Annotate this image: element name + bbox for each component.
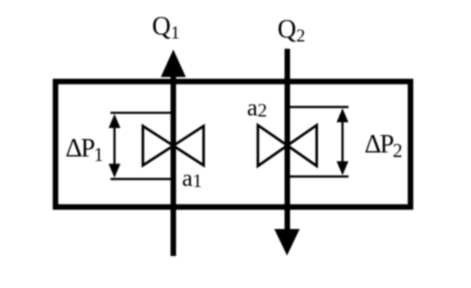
svg-text:ΔP2: ΔP2 (365, 130, 403, 162)
svg-text:ΔP1: ΔP1 (66, 134, 104, 166)
dim arrow DP1 down (109, 164, 121, 178)
arrowhead Q1 (up) (161, 50, 186, 78)
valve V2 (bowtie) (258, 125, 317, 166)
wire: right flow line Q2 (285, 49, 291, 236)
svg-text:Q1: Q1 (152, 11, 180, 42)
svg-text:a2: a2 (247, 96, 267, 122)
dim arrow DP2 down (337, 161, 349, 175)
valve V1 (bowtie) (143, 126, 204, 165)
dim arrow DP1 up (109, 114, 121, 128)
arrowhead Q2 (down) (274, 229, 299, 256)
dim arrow DP2 up (337, 108, 349, 122)
svg-text:Q2: Q2 (278, 14, 306, 45)
dimension lines DP2 (287, 107, 348, 177)
svg-text:a1: a1 (182, 166, 202, 192)
wire: left flow line Q1 (171, 68, 177, 256)
enclosure box (56, 82, 411, 208)
dimension lines DP1 (111, 113, 174, 179)
